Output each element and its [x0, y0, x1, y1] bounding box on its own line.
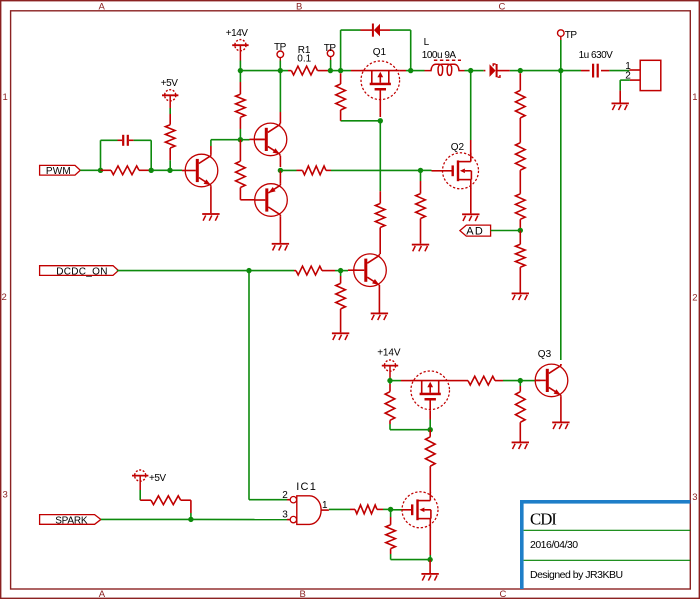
mosfet Q4 [401, 371, 452, 410]
net tag AD [460, 225, 491, 236]
wire 470 down to Q2 [470, 71, 472, 140]
wire node to T2 base [240, 139, 249, 141]
wire +14V to rail [239, 61, 241, 71]
ground Q3 base resistor [512, 442, 529, 450]
wire loop top right [390, 29, 411, 31]
connector pin 1 label [625, 61, 631, 72]
label DCDC_ON [56, 266, 108, 277]
svg-text:+14V: +14V [377, 348, 401, 359]
svg-text:C: C [499, 1, 506, 12]
svg-text:C: C [500, 589, 507, 600]
label PWM [46, 166, 71, 177]
resistor R1 0.1 shunt [288, 66, 330, 75]
ground T3 [272, 243, 289, 251]
svg-text:TP: TP [274, 42, 287, 53]
resistor chain link 2 [519, 170, 521, 194]
node dot Q4 gate [428, 427, 433, 432]
transistor Q3 emitter lead [560, 397, 562, 422]
transistor T1 emitter lead [210, 187, 212, 213]
transistor Q3 [535, 364, 568, 397]
title block divider line 1 [524, 529, 691, 531]
wire cap branch top left [101, 139, 118, 141]
+14V supply symbol top [232, 40, 248, 61]
svg-text:100u 9A: 100u 9A [422, 50, 457, 61]
resistor Q2 gate pulldown [416, 181, 426, 244]
label Q2 [451, 142, 465, 153]
inductor L 100u 9A [425, 60, 465, 75]
wire IC1 out [329, 508, 350, 510]
svg-text:3: 3 [282, 510, 288, 521]
label TP1 [274, 42, 287, 53]
node dot 240/70 [238, 68, 243, 73]
wire gate line to Q2 [423, 169, 443, 171]
transistor T1 base lead [182, 170, 185, 172]
transistor T4 base lead [348, 269, 357, 271]
transistor T3 PNP [255, 184, 288, 217]
svg-text:1: 1 [322, 500, 328, 511]
connector pin 2 label [625, 71, 631, 82]
resistor T4 base [294, 266, 335, 275]
wire cap to connector [609, 70, 629, 72]
+14V label top [226, 28, 248, 39]
wire Q5 source to gnd node [429, 555, 431, 560]
frame row label 3 right [692, 492, 697, 503]
wire pullup to node [190, 513, 192, 519]
svg-text:TP: TP [565, 30, 578, 41]
wire node to Q4 [390, 380, 401, 382]
svg-text:Q3: Q3 [538, 349, 552, 360]
wire +14V lower to node [389, 378, 391, 381]
ground connector [612, 103, 629, 111]
node dot 470/70 [468, 68, 473, 73]
resistor chain R c [516, 194, 526, 220]
label IC1 pin 2 [282, 490, 288, 501]
node dot DCDC [246, 268, 251, 273]
svg-text:1: 1 [3, 92, 8, 103]
wire DCDC to IC1 in2 [249, 499, 290, 501]
wire rail 410-424 [411, 70, 425, 72]
svg-text:Designed by JR3KBU: Designed by JR3KBU [530, 569, 623, 581]
+5V label spark [149, 473, 166, 484]
svg-text:+5V: +5V [149, 473, 166, 484]
test point TP1 [277, 51, 284, 61]
resistor +14V to driver node [236, 71, 246, 140]
wire loop up left [340, 30, 342, 71]
svg-text:PWM: PWM [46, 166, 71, 177]
svg-text:0.1: 0.1 [297, 53, 311, 64]
transistor T3 collector lead [279, 216, 281, 243]
nand gate IC1 [290, 496, 321, 525]
svg-text:3: 3 [692, 492, 697, 503]
ground Q5 [421, 560, 438, 581]
resistor gate drive [280, 166, 331, 175]
wire Q5 pulldown corner [391, 554, 431, 560]
title date 2016/04/30 [530, 539, 578, 551]
svg-text:CDI: CDI [530, 509, 556, 528]
wire rail 280-287 [280, 70, 288, 72]
label AD [466, 225, 484, 237]
node dot 520/70 [518, 68, 523, 73]
svg-text:Q1: Q1 [373, 47, 387, 58]
transistor T4 [354, 254, 387, 287]
capacitor C1 1u 630V [581, 64, 609, 78]
mosfet Q1 [351, 61, 406, 100]
transistor T2 base lead [250, 138, 265, 140]
frame column label B top [296, 1, 302, 12]
wire T1 collector to node [211, 139, 241, 141]
wire L to node [465, 70, 471, 72]
node dot PWM b [149, 168, 154, 173]
wire rail 340-351 [341, 70, 351, 72]
svg-text:SPARK: SPARK [55, 515, 88, 526]
wire Q4 gate loop corner [390, 424, 430, 430]
transistor T2 [254, 123, 287, 156]
wire DCDC node to res [249, 270, 294, 272]
ground T4 base resistor [332, 332, 349, 340]
wire rail 240-280 [240, 70, 280, 72]
label TP3 [565, 30, 578, 41]
diode D2 lead left [484, 70, 486, 72]
mosfet Q2 source lead [470, 188, 472, 213]
title text CDI [530, 509, 556, 528]
transistor T3 emitter lead [279, 170, 281, 183]
wire Q3 collector up [560, 71, 562, 360]
transistor T2 collector lead [279, 112, 281, 123]
capacitor PWM speedup [118, 135, 134, 146]
mosfet Q2 drain lead [470, 140, 472, 154]
transistor Q3 collector lead [560, 364, 562, 366]
ground Q3 [552, 422, 569, 430]
wire T4 node to base [341, 270, 348, 272]
node dot 340/70 [338, 68, 343, 73]
resistor T4 base pulldown [336, 271, 346, 333]
wire DCDC down [248, 271, 250, 500]
node dot 280/70 [278, 68, 283, 73]
wire Q2 gate stub down [420, 170, 422, 181]
resistor Q5 gate pulldown [386, 509, 396, 554]
resistor chain link 1 [519, 118, 521, 143]
ground Q2 gate resistor [412, 244, 429, 252]
wire T2 collector up [279, 71, 281, 112]
svg-text:TP: TP [324, 43, 337, 54]
resistor chain R a [516, 90, 526, 118]
resistor Q4 gate-source [385, 381, 395, 424]
ground T1 [202, 213, 219, 221]
resistor Q3 base pulldown [516, 381, 526, 442]
svg-text:1: 1 [692, 92, 697, 103]
label TP2 [324, 43, 337, 54]
test point TP3 [558, 30, 565, 40]
node dot AD [518, 228, 523, 233]
diode D1 [372, 24, 380, 37]
frame column label C bottom [500, 589, 507, 600]
resistor Q1 gate-source [336, 73, 346, 121]
diode D1 lead left [361, 29, 373, 31]
title block divider line 2 [524, 559, 691, 561]
svg-text:3: 3 [3, 490, 8, 501]
wire Q3 base wire [520, 380, 536, 382]
mosfet Q5 drain lead up [429, 491, 431, 494]
svg-text:2: 2 [282, 490, 288, 501]
resistor PWM base [101, 166, 152, 175]
transistor T2 emitter lead [279, 156, 281, 167]
wire loop top left [341, 29, 361, 31]
frame row label 3 left [3, 490, 8, 501]
frame row label 2 left [2, 292, 7, 303]
label R1 value 0.1 [297, 53, 311, 64]
resistor Q3 base series [452, 376, 503, 385]
title block blue border [520, 500, 690, 589]
connector X1 pin2 lead [630, 79, 640, 81]
resistor SPARK pullup [140, 496, 191, 513]
wire node b to c [151, 169, 170, 171]
resistor chain R d [516, 230, 526, 292]
mosfet Q2 [443, 153, 479, 189]
wire pin2 gnd lead [619, 91, 621, 103]
diode D2 schottky [490, 64, 501, 77]
node dot 390/380 [387, 378, 392, 383]
node dot driver [238, 137, 243, 142]
label L [424, 37, 430, 48]
wire pin2 down [619, 80, 621, 91]
svg-text:B: B [296, 1, 302, 12]
mosfet Q5 [402, 492, 438, 528]
connector X1 pin1 lead [629, 69, 640, 71]
node dot Q5 gate [388, 507, 393, 512]
resistor chain lead to AD node [519, 219, 521, 230]
node dot T4 base [338, 268, 343, 273]
diode D1 lead right [380, 29, 390, 31]
node dot Q2 gate [418, 168, 423, 173]
wire node 520 to 560 [520, 70, 561, 72]
wire TP2 stub [330, 60, 332, 71]
label L value 100u 9A [422, 50, 457, 61]
wire to Q3 base node [503, 380, 520, 382]
wire Q4 gate stem lower [429, 410, 431, 429]
resistor chain R b [516, 143, 526, 171]
node dot Q1 gate rail [378, 118, 383, 123]
resistor chain top lead [519, 73, 521, 90]
svg-text:2: 2 [692, 293, 697, 304]
svg-text:+14V: +14V [226, 28, 248, 39]
svg-text:1u 630V: 1u 630V [579, 50, 614, 61]
node dot driver out [278, 168, 283, 173]
diode D2 lead right [496, 70, 510, 72]
wire TP1 stub [279, 61, 281, 71]
wire T1 collector up [210, 140, 212, 146]
label C1 value 1u 630V [579, 50, 614, 61]
resistor Q1 gate chain leads [379, 191, 381, 254]
node dot PWM a [98, 168, 103, 173]
wire cap branch down [150, 140, 152, 170]
label IC1 pin 1 [322, 500, 328, 511]
wire D2 to node 520 [510, 70, 521, 72]
label R1 [298, 45, 311, 56]
wire res to Q5 gate node [383, 508, 391, 510]
node dot PWM c [167, 168, 172, 173]
label SPARK [55, 515, 88, 526]
ground Q2 [462, 213, 479, 221]
svg-text:DCDC_ON: DCDC_ON [56, 266, 108, 277]
wire loop down right [410, 30, 412, 71]
resistor spark divider [426, 430, 436, 493]
wire rail 560-581 [561, 70, 581, 72]
+14V label lower [377, 348, 401, 359]
wire rail 330-340 [330, 70, 340, 72]
wire DCDC to node [117, 270, 249, 272]
wire cap branch top right [134, 139, 152, 141]
node dot 330/70 [328, 68, 333, 73]
wire Q1 drain to node [406, 70, 411, 72]
resistor Q1 gate chain [375, 204, 385, 228]
wire +5V spark stem [139, 490, 141, 500]
net tag DCDC_ON [40, 266, 119, 276]
svg-text:Q2: Q2 [451, 142, 465, 153]
label Q1 [373, 47, 387, 58]
connector X1 body [640, 60, 661, 90]
frame column label A top [99, 1, 106, 12]
+5V label left [161, 78, 178, 89]
label IC1 pin 3 [282, 510, 288, 521]
wire SPARK to node [101, 518, 191, 520]
wire Q1 gate down [379, 121, 381, 191]
frame row label 2 right [692, 293, 697, 304]
resistor Q5 gate series [350, 505, 383, 514]
label IC1 [296, 481, 317, 493]
frame row label 1 right [692, 92, 697, 103]
wire node to D2 [471, 70, 484, 72]
wire AD to chain [491, 230, 521, 232]
IC1 output stub [321, 509, 329, 511]
wire cap branch up [100, 140, 102, 170]
+14V supply symbol lower [382, 360, 398, 378]
ground T4 [371, 313, 388, 321]
wire res to T4 node [335, 270, 341, 272]
svg-text:2016/04/30: 2016/04/30 [530, 539, 578, 551]
node dot Q5 source [427, 557, 432, 562]
mosfet Q5 gate lead [391, 509, 403, 511]
transistor Q3 base lead [536, 379, 540, 381]
wire TP3 to rail [560, 40, 562, 71]
ground resistor chain [512, 293, 529, 301]
node dot 410/70 [408, 68, 413, 73]
mosfet Q5 source lead [429, 527, 431, 555]
transistor T1 [185, 154, 218, 187]
wire T3 base corner [240, 199, 254, 201]
wire gate rail left [341, 120, 381, 122]
svg-text:IC1: IC1 [296, 481, 317, 493]
svg-text:+5V: +5V [161, 78, 178, 89]
transistor T4 emitter lead [378, 287, 380, 313]
+5V supply symbol spark [132, 470, 148, 490]
net tag SPARK [40, 515, 101, 525]
wire gate drive to Q2 [331, 169, 421, 171]
resistor T3 base chain [236, 140, 246, 200]
wire SPARK to IC1 [191, 518, 291, 520]
svg-text:B: B [300, 589, 306, 600]
wire Q1 gate stem [379, 100, 381, 117]
wire pin2 left [620, 79, 630, 81]
wire PWM to node [80, 169, 100, 171]
transistor T1 collector lead [210, 146, 212, 154]
+5V supply symbol left [162, 90, 178, 108]
frame column label C top [499, 1, 506, 12]
svg-text:AD: AD [466, 225, 484, 237]
test point TP2 [327, 50, 334, 60]
net tag PWM [40, 165, 81, 175]
node dot Q3 base [518, 378, 523, 383]
svg-text:2: 2 [2, 292, 7, 303]
svg-text:L: L [424, 37, 430, 48]
resistor +5V pullup [165, 108, 175, 170]
node dot SPARK [188, 517, 193, 522]
title designed by JR3KBU [530, 569, 623, 581]
label Q3 [538, 349, 552, 360]
frame column label B bottom [300, 589, 306, 600]
frame row label 1 left [3, 92, 8, 103]
frame column label A bottom [99, 589, 106, 600]
node dot 560/70 [558, 68, 563, 73]
wire node c to T1 base [170, 169, 182, 171]
